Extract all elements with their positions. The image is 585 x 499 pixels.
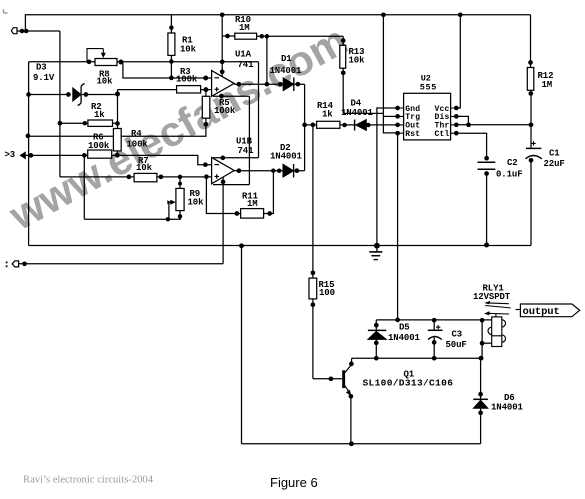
junction dot (350.9,396.3) (349, 394, 354, 399)
svg-text:1M: 1M (542, 80, 553, 90)
svg-text:1k: 1k (322, 109, 333, 119)
terminal 3 arrow (19, 151, 25, 159)
op-amp U1B (212, 157, 235, 183)
terminal 1 (11, 28, 17, 34)
wire Q1 collector link (345, 358, 352, 372)
junction dot (397.6,124.9) (395, 123, 400, 128)
junction dot (84.3,155.4) (82, 153, 87, 158)
junction dot (344.6,125) (342, 123, 347, 128)
junction dot (205.4,164.7) (203, 162, 208, 167)
junction dot (266.9,36.3) (265, 34, 270, 39)
junction dot (304.6,124.9) (302, 123, 307, 128)
resistor R10 (235, 33, 257, 39)
transistor Q1 emitter arrow (345, 386, 350, 393)
IC U2 555 box (404, 93, 451, 140)
svg-text:Ctl: Ctl (435, 130, 450, 139)
wire x241.5 down link (241, 246, 243, 444)
svg-text:100k: 100k (214, 106, 236, 116)
wire D6 chain x480.6 (480, 358, 482, 444)
diode D1 (283, 78, 293, 91)
junction dot (460.3,14.8) (458, 12, 463, 17)
junction dot (266.9,84.2) (265, 82, 270, 87)
wire U1B V+ row y157.8 (213, 157, 259, 159)
junction dot (480.6,412.9) (478, 411, 483, 416)
wire left supply vertical x28.6 (28, 62, 30, 246)
diode D4 (356, 120, 367, 131)
resistor R7 (134, 173, 157, 181)
junction dot (238.9,170.7) (237, 168, 242, 173)
wire R1 leads (170, 15, 172, 78)
diode D6 (473, 400, 487, 408)
potentiometer R9 wiper arrows (169, 201, 171, 203)
junction dot (456.3,133.2) (454, 131, 459, 136)
junction dot (206.4,176.7) (204, 174, 209, 179)
op-amp U1A (212, 71, 235, 97)
resistor R12 (527, 68, 534, 91)
svg-text:U1A: U1A (235, 50, 252, 60)
svg-text:1M: 1M (239, 23, 250, 33)
resistor R6 (88, 150, 112, 158)
resistor R11 (241, 209, 264, 219)
wire U1A V+ vertical x222 (221, 15, 223, 77)
junction dot (117.5,123.5) (115, 121, 120, 126)
junction dot (238.9,84.2) (237, 82, 242, 87)
resistor R4 (113, 129, 121, 151)
wire +V top rail (25, 15, 530, 31)
junction dot (397.6,319.9) (395, 318, 400, 323)
junction dot (24.5,263.8) (22, 261, 27, 266)
svg-text:1N4001: 1N4001 (491, 403, 524, 413)
junction dot (376.3,325.2) (374, 323, 379, 328)
wire R8 right jog down to U1A minus row (121, 62, 212, 78)
junction dot (468.5,124.8) (466, 122, 471, 127)
terminal 2 (12, 261, 18, 267)
wire U1A Vminus row y96 (213, 95, 249, 97)
svg-text:Ravi’s electronic circuits-200: Ravi’s electronic circuits-2004 (23, 475, 154, 486)
junction dot (121,62) (119, 60, 124, 65)
junction dot (28.6,94.5) (26, 92, 31, 97)
wire D5 leads (375, 320, 377, 358)
wire x258.5 vertical V+ link (258, 62, 260, 158)
junction dot (376.9,245.7) (374, 243, 380, 249)
junction dot (376.3,358.2) (374, 356, 379, 361)
junction dot (486.6,158.2) (484, 156, 489, 161)
diode D5 (368, 331, 386, 339)
junction dot (180,216.4) (178, 214, 183, 219)
resistor R1 (168, 33, 175, 55)
wire R13 leads (342, 36, 344, 113)
junction dot (85.9,94.5) (84, 92, 89, 97)
junction dot (222.2,71.8) (220, 69, 225, 74)
junction dot (434.2,358.2) (432, 356, 437, 361)
wire x249 vertical U1A V- to U1B V- (248, 96, 250, 184)
wire x304.6 vertical D1 to D2 (304, 84, 306, 171)
transistor Q1 base bar (342, 370, 345, 388)
junction dot (117.5,94) (115, 92, 120, 97)
svg-text:1N4001: 1N4001 (270, 66, 303, 76)
junction dot (383.4,14.8) (381, 12, 386, 17)
junction dot (279.2,170.7) (277, 168, 282, 173)
wire terminal2 row y263 (19, 263, 224, 265)
wire x84.3 vertical input node (83, 155, 85, 219)
junction dot (222.2,61.8) (220, 59, 225, 64)
wire R9 bottom lead (179, 211, 181, 220)
wire R13 bottom to x383 (343, 112, 383, 114)
wire R15 to Q1 base (313, 378, 342, 380)
wire 555 Thr row to R12 (456, 124, 531, 126)
wire Out/trigger row y124.9 (305, 124, 398, 126)
junction dot (84.8,123.2) (83, 121, 88, 126)
svg-text:0.1uF: 0.1uF (496, 169, 523, 179)
junction dot (30.9,155.4) (29, 153, 34, 158)
svg-text:D3: D3 (36, 63, 47, 73)
wire coil left vertical x482.1 (481, 320, 483, 358)
wire R10 right to R13 top (257, 35, 344, 37)
junction dot (280.2,84.2) (278, 82, 283, 87)
junction dot (89,61.8) (87, 59, 92, 64)
wire R11 left link to U1B plus (206, 177, 240, 214)
svg-text:1N4001: 1N4001 (270, 152, 303, 162)
junction dot (269.7,213.5) (267, 211, 272, 216)
junction dot (222.2,14.8) (220, 12, 225, 17)
junction dot (297.9,84.2) (296, 82, 301, 87)
wire Trg stub (383, 115, 397, 117)
svg-text:22uF: 22uF (544, 159, 565, 169)
svg-text:100: 100 (319, 288, 335, 298)
svg-text:10k: 10k (136, 163, 153, 173)
wire terminal1 to x60 (18, 30, 60, 32)
corner mark top-left (4, 9, 8, 13)
svg-text:10k: 10k (97, 77, 114, 87)
junction dot (167.9,219.2) (166, 217, 171, 222)
svg-text:C2: C2 (507, 158, 518, 168)
svg-text:10k: 10k (180, 44, 197, 54)
junction dot (171.4,61.5) (169, 59, 174, 64)
relay RLY1 coil (488, 317, 505, 347)
junction dot (296.9,170.7) (295, 168, 300, 173)
potentiometer R8 body (95, 59, 117, 66)
wire bottom rail y443.8 (242, 443, 481, 445)
wire D3 row y94.5 (29, 94, 70, 96)
junction dot (312.9,124.9) (311, 123, 316, 128)
op-amp U1A input signs (215, 78, 220, 179)
wire U1A plus row y89.6 (118, 89, 212, 91)
junction dot (351.4,363.9) (349, 362, 354, 367)
junction dot (221.4,96) (219, 94, 224, 99)
junction dot (160.9,176.9) (159, 175, 164, 180)
junction dot (241.5,245.8) (239, 243, 244, 248)
wire Rst to relay vertical x397.6 (397, 133, 399, 320)
wire relay +V row y319.9 (376, 319, 491, 321)
junction dot (205.9,89.6) (203, 87, 208, 92)
resistor R15 (309, 278, 317, 299)
svg-text:10k: 10k (188, 198, 205, 208)
svg-text:output: output (523, 306, 560, 318)
junction dot (531,160.3) (529, 158, 534, 163)
junction dot (456.3,108) (454, 106, 459, 111)
zener diode D3 (73, 88, 81, 101)
junction dot (227.5,36) (225, 34, 230, 39)
junction dot (22,31) (20, 29, 25, 34)
capacitor C1 electrolytic (526, 147, 541, 149)
wire R10 left lead (222, 35, 235, 37)
capacitor C3 electrolytic (428, 329, 443, 331)
junction dot (397.6,108) (395, 106, 400, 111)
svg-text:100k: 100k (88, 141, 110, 151)
wire R8 row y62 (29, 61, 259, 63)
junction dot (482.1,343.2) (480, 341, 485, 346)
junction dot (486.6,245) (484, 243, 489, 248)
svg-text:100k: 100k (127, 139, 149, 149)
junction dot (330.9,378.8) (329, 376, 334, 381)
svg-text:D1: D1 (281, 54, 292, 64)
junction dot (312.9,304.7) (311, 302, 316, 307)
junction dot (68.4,94.5) (66, 92, 71, 97)
svg-text:741: 741 (238, 60, 255, 70)
diode D2 (283, 164, 293, 177)
junction dot (312.9,272.8) (311, 270, 316, 275)
junction dot (223.1,181.9) (221, 180, 226, 185)
svg-text:741: 741 (238, 146, 255, 156)
junction dot (59.9,123.2) (58, 121, 63, 126)
junction dot (180,176.9) (178, 175, 183, 180)
junction dot (351.4,443.8) (349, 441, 354, 446)
wire U1A output row y84.2 (234, 83, 304, 85)
wire R9 top lead (179, 177, 181, 189)
junction dot (530.5,62.5) (528, 60, 533, 65)
junction dot (486.6,173.5) (484, 171, 489, 176)
resistor R3 (177, 86, 201, 93)
wire R9 return row y219.2 (84, 218, 181, 220)
svg-text:1N4001: 1N4001 (341, 108, 374, 118)
junction dot (531,124.8) (529, 122, 534, 127)
junction dot (128.9,176.9) (127, 175, 132, 180)
svg-text:1M: 1M (247, 199, 258, 209)
wire R4 bottom lead (116, 151, 118, 156)
junction dot (261.8,36.3) (260, 34, 265, 39)
junction dot (343.2,72.8) (341, 70, 346, 75)
wire 555 Dis jog (456, 116, 468, 124)
resistor R14 (317, 121, 340, 128)
wire R6 input row y155.4 (26, 155, 212, 164)
junction dot (376.3,342.9) (374, 341, 379, 346)
svg-text:100k: 100k (176, 74, 198, 84)
junction dot (434.2,320.2) (432, 318, 437, 323)
wire coil bottom stub (482, 342, 492, 344)
wire 555 Gnd to ground (377, 108, 398, 246)
junction dot (180,183.6) (178, 182, 182, 186)
relay RLY1 contacts and arm (485, 303, 520, 317)
junction dot (343.2,40.5) (341, 38, 346, 43)
output flag (520, 304, 579, 317)
wire 555 Vcc to rail (456, 15, 460, 108)
svg-text:Rst: Rst (405, 130, 420, 139)
svg-text:555: 555 (420, 83, 437, 93)
svg-text:D6: D6 (504, 393, 515, 403)
junction dot (236.9,213.5) (235, 211, 240, 216)
svg-text:R4: R4 (131, 129, 142, 139)
ground symbol (369, 252, 382, 260)
wire x60 vertical (59, 31, 61, 177)
svg-text:C3: C3 (452, 330, 463, 340)
wire x223 vertical to terminal2 row (222, 178, 224, 264)
wire C2 bottom (486, 173, 488, 246)
junction dot (171.4,77.9) (169, 76, 174, 81)
svg-text:50uF: 50uF (446, 340, 467, 350)
wire 555 Ctl to C2 (456, 133, 486, 158)
wire ground symbol stub (376, 246, 378, 252)
wire +V to Rst vertical x383.4 (383, 15, 397, 133)
svg-text:1N4001: 1N4001 (388, 333, 421, 343)
wire D3 node vertical x117.5 (117, 90, 119, 129)
wire R7 row y176.9 (60, 176, 212, 178)
junction dot (480.6,394.2) (478, 392, 483, 397)
junction dot (27.9,135.9) (26, 134, 31, 139)
svg-text:D5: D5 (399, 323, 410, 333)
junction dot (26.2,31) (24, 29, 29, 34)
potentiometer R9 body (176, 188, 184, 210)
junction dot (456.3,124.8) (454, 122, 459, 127)
svg-text:Figure 6: Figure 6 (270, 475, 318, 490)
junction dot (368.3,125) (366, 123, 371, 128)
svg-text:10k: 10k (349, 55, 366, 65)
wire U1B V- row y184.6 (213, 184, 249, 186)
wire collector row y358.2 (352, 357, 481, 359)
junction dot (530.8,93.5) (528, 91, 533, 96)
junction dot (456.3,116.4) (454, 114, 459, 119)
svg-text:C1: C1 (549, 149, 560, 159)
555 pin stubs (398, 108, 457, 133)
junction dot (481,358.2) (479, 356, 484, 361)
capacitor C2 (478, 162, 496, 169)
junction dot (397.6,116.4) (395, 114, 400, 119)
wire R11 right link to output (264, 171, 274, 214)
wire R5 return to left rail (28, 124, 206, 136)
wire R5 leads (205, 90, 207, 125)
resistor R13 (340, 45, 346, 68)
wire x266.9 vertical to D1 row (266, 36, 268, 84)
wire mid ground rail y245.5 (29, 245, 531, 247)
svg-text:SL100/D313/C106: SL100/D313/C106 (363, 378, 454, 389)
junction dot (205.7,78) (203, 76, 208, 81)
svg-text:1k: 1k (94, 110, 105, 120)
junction dot (434.2,342.4) (432, 340, 437, 345)
wire R12 chain x531 (530, 15, 533, 246)
junction dot (273.3,170.7) (271, 168, 276, 173)
svg-text:9.1V: 9.1V (33, 73, 55, 83)
resistor R2 (88, 120, 113, 126)
resistor R5 (202, 96, 210, 118)
wire R2 row y123.2 (60, 122, 118, 124)
svg-text:12VSPDT: 12VSPDT (473, 292, 511, 302)
wire R9 wiper arm (168, 202, 170, 219)
junction dot (482.1,320.2) (480, 318, 485, 323)
wire U1B output row y170.7 (234, 170, 304, 172)
wire Q1 emitter to bottom rail (350, 396, 352, 444)
op-amp U1B input signs (215, 164, 220, 166)
junction dot (205.9,124.3) (204, 122, 209, 127)
junction dot (117.3,155.2) (115, 153, 120, 158)
junction dot (397.6,133.2) (395, 131, 400, 136)
junction dot (222.8,157.8) (220, 155, 225, 160)
wire C3 leads (433, 320, 435, 358)
junction dot (171.4,27.6) (169, 25, 174, 30)
svg-text:>3: >3 (5, 150, 16, 160)
potentiometer R8 wiper arrow (87, 49, 103, 62)
wire R15 chain x312.9 (312, 125, 314, 379)
